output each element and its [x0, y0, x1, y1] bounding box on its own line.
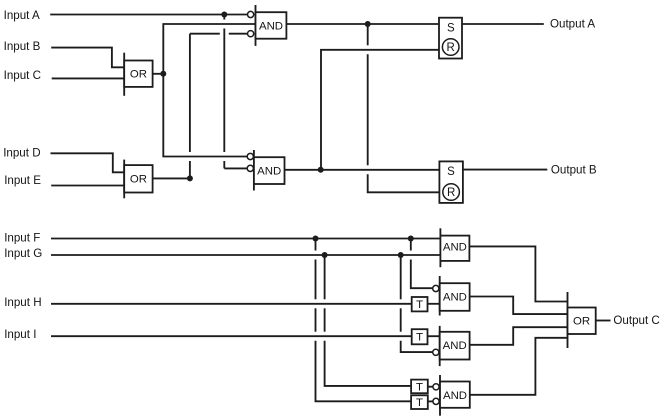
svg-text:OR: OR	[573, 316, 590, 328]
svg-text:Input B: Input B	[4, 40, 41, 53]
svg-text:Output A: Output A	[550, 17, 595, 30]
svg-text:T: T	[416, 332, 423, 344]
svg-text:T: T	[416, 381, 423, 393]
svg-text:T: T	[416, 299, 423, 311]
svg-text:Input F: Input F	[4, 232, 40, 245]
svg-text:OR: OR	[130, 174, 147, 186]
svg-text:OR: OR	[130, 69, 147, 81]
svg-text:Input E: Input E	[4, 174, 41, 187]
svg-text:AND: AND	[257, 166, 281, 178]
svg-text:AND: AND	[443, 292, 467, 304]
svg-text:AND: AND	[259, 20, 283, 32]
svg-text:T: T	[416, 397, 423, 409]
svg-text:Input D: Input D	[3, 147, 40, 160]
svg-text:Output B: Output B	[551, 164, 597, 177]
svg-text:S: S	[447, 166, 455, 178]
svg-text:Input H: Input H	[4, 296, 41, 309]
svg-text:AND: AND	[443, 340, 467, 352]
svg-text:R: R	[447, 42, 455, 54]
svg-text:Input A: Input A	[4, 9, 40, 22]
svg-text:Output C: Output C	[613, 314, 659, 327]
svg-text:R: R	[447, 187, 455, 199]
svg-text:AND: AND	[443, 241, 467, 253]
svg-text:AND: AND	[443, 390, 467, 402]
svg-text:Input I: Input I	[4, 328, 36, 341]
svg-text:S: S	[447, 23, 455, 35]
svg-text:Input C: Input C	[4, 69, 41, 82]
svg-text:Input G: Input G	[4, 247, 42, 260]
